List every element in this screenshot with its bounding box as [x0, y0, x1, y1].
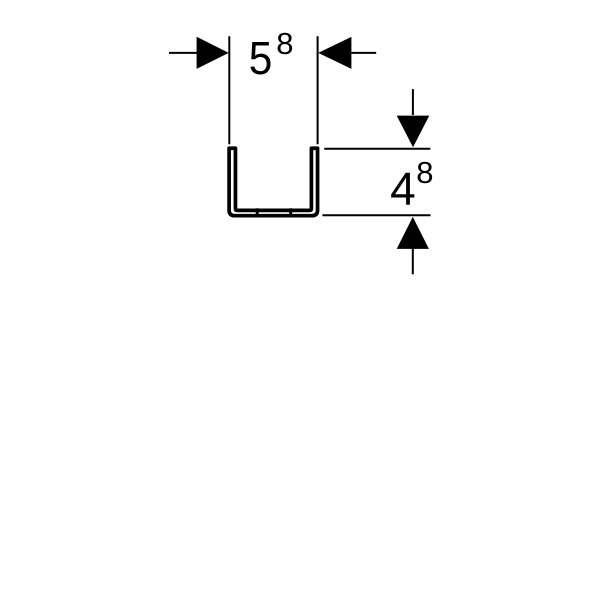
width dimension: right extension line — [317, 36, 319, 144]
U-profile channel cross-section — [229, 148, 317, 215]
height dimension: bottom arrow (up) — [397, 217, 429, 249]
tick mark left on bottom web — [256, 208, 259, 216]
svg-text:8: 8 — [416, 155, 433, 190]
width dimension: left leader line — [169, 52, 197, 54]
height dimension: top arrow (down) — [397, 116, 430, 148]
svg-text:4: 4 — [390, 163, 416, 215]
svg-text:8: 8 — [276, 26, 293, 61]
height dimension: top leader line — [412, 89, 414, 115]
tick mark right on bottom web — [289, 208, 292, 216]
width dimension: left arrow — [197, 37, 229, 69]
width dimension: left extension line — [228, 36, 230, 144]
svg-text:5: 5 — [249, 32, 273, 84]
height dimension: lower reference line — [322, 214, 430, 216]
height dimension: upper reference line — [324, 148, 430, 150]
height dimension: bottom leader line — [412, 249, 414, 275]
width dimension: right arrow — [318, 37, 351, 69]
width dimension: right leader line — [351, 52, 376, 54]
